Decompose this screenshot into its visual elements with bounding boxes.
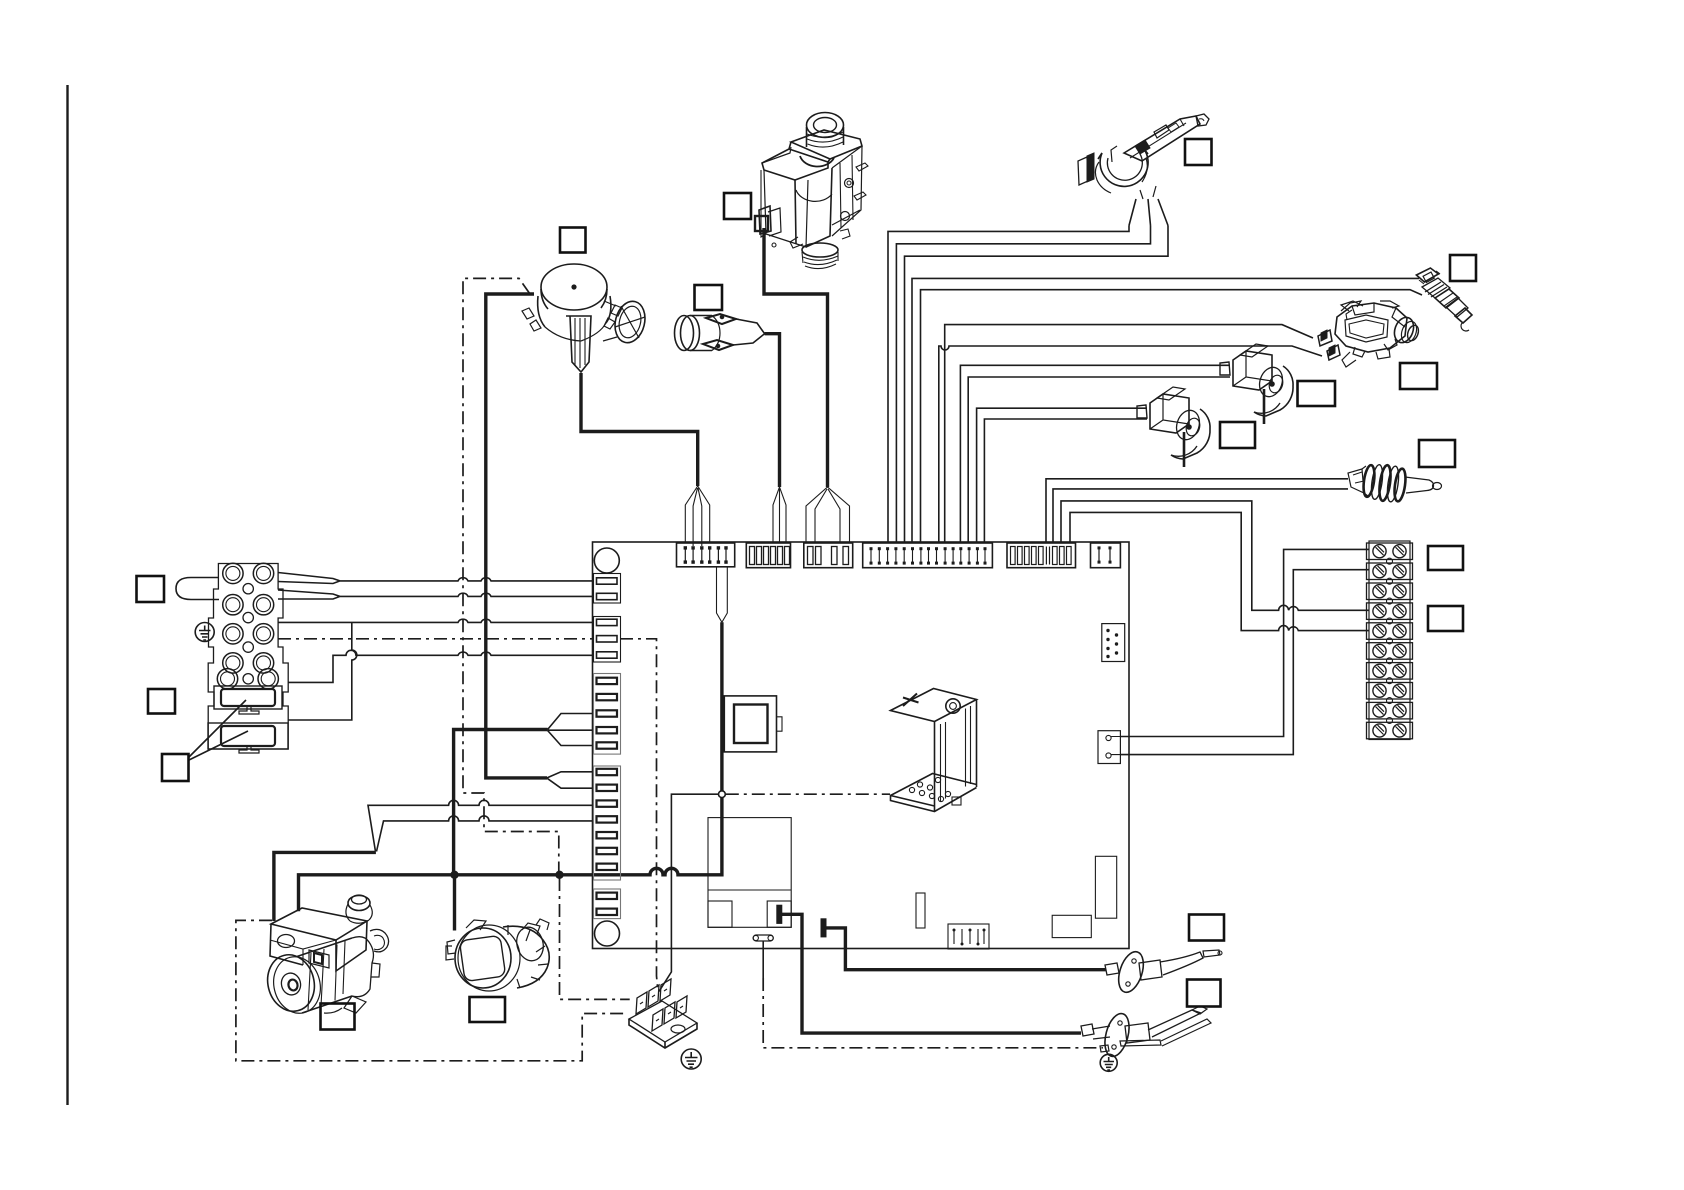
chassis dash-dot pump loop [236, 920, 627, 1060]
PCB left pad group B [594, 617, 621, 663]
pump [262, 895, 389, 1018]
T-stub to detection electrode thick [827, 928, 1106, 970]
PCB small rect bottom-center [916, 893, 925, 928]
wire pad D4 to pump cable (hops) [377, 816, 594, 852]
PCB corner hole bottom-left [595, 921, 620, 946]
PCB small rect right [1095, 856, 1116, 918]
wire CN4-2 to flue clamp [896, 226, 1150, 544]
wire node up to CN1 pins (bundle envelope) [720, 622, 723, 791]
wire node to bracket dash-dot [726, 793, 890, 795]
PCB left pad group A [594, 574, 621, 604]
wire CN4-11 to pipe clip A [984, 419, 1147, 543]
wire fan bundle to connector CN1 [581, 373, 698, 486]
wire block row3 to pad B1 (hops) [278, 619, 593, 622]
wire block row2 to pad A2 (taper, hops) [278, 590, 593, 599]
fuse holder 2 [208, 723, 288, 753]
label box flue clamp [1185, 139, 1212, 165]
wire pump-motor column to diverter motor [453, 875, 456, 931]
label box fuse holder [148, 689, 175, 714]
pipe clip A [1137, 387, 1210, 467]
PCB relay box [708, 818, 791, 928]
label box fan [560, 228, 586, 253]
wire CN4-4 to thermistor [912, 278, 1419, 543]
wire funnel above CN1 [685, 486, 709, 546]
PCB 7-hole connector right [1102, 624, 1125, 662]
connector CN1 [677, 543, 735, 567]
label box strip lower [1428, 606, 1463, 631]
wire fan power thick [486, 294, 534, 730]
connector CN5 [1007, 543, 1076, 568]
PCB corner hole top-left [594, 548, 619, 573]
chassis dash-dot from fan [463, 278, 559, 871]
wire funnel above CN2 [773, 487, 786, 543]
fan [522, 264, 649, 372]
wire CN4-6 to pressure switch (hops CN4-7) [939, 346, 1322, 543]
wire CN5-1 to probe [1046, 479, 1348, 543]
label box fuse pointer [162, 754, 189, 781]
wire CN4-5 to thermistor [921, 290, 1423, 543]
wire terminal block loop jumper [176, 578, 219, 600]
label box thermistor [1450, 255, 1476, 281]
fuse holder 1 [214, 686, 282, 714]
wire fan thick branch to pump-motor column [454, 730, 486, 874]
earth symbol below earth terminal [681, 1049, 701, 1069]
wire block row5 to pad B3 (hops) [288, 650, 593, 682]
PCB left pad group D [594, 766, 621, 880]
label box pipe clip A [1220, 422, 1255, 448]
wire strip row1 to PCB 2pin connector [1121, 549, 1369, 736]
label box gas valve [724, 193, 751, 219]
left terminal block [208, 563, 288, 749]
wire CN4-3 to flue clamp [905, 226, 1169, 544]
wire CN4-9 to pipe clip B [968, 377, 1230, 543]
detection electrode [1081, 1006, 1211, 1059]
terminal strip right [1367, 541, 1413, 740]
label box ignition electrode [1189, 915, 1224, 941]
wire block earth dash-dot to pad B2 [278, 638, 593, 640]
earth symbol at block [195, 623, 214, 642]
fuse dash-dot to detection electrode earth [763, 978, 1103, 1048]
flue clamp sensor [1078, 114, 1209, 199]
earth terminal block [629, 979, 697, 1048]
connector CN4 [863, 543, 993, 568]
connector CN3 [804, 543, 853, 568]
gas valve [755, 113, 868, 269]
PCB left pad group C [594, 674, 621, 755]
wire CN5-3 to terminal strip row4 (hops) [1061, 501, 1369, 610]
PCB fuse [753, 935, 773, 941]
wire CN4-8 to pipe clip B [960, 365, 1230, 543]
wire overheat stat to connector CN2 [765, 334, 780, 487]
pressure selector switch [1318, 301, 1420, 367]
PCB main board outline [593, 542, 1130, 949]
label box pump [321, 1004, 355, 1030]
label box terminal block [137, 576, 165, 602]
label box detection electrode [1187, 980, 1221, 1007]
label box pressure switch [1400, 363, 1437, 389]
PCB 2-pin connector right [1098, 731, 1121, 764]
temperature probe [1348, 464, 1442, 503]
wire pump cable thick [274, 852, 376, 921]
connector CN6 [1091, 543, 1121, 568]
wire funnel below flue clamp [1129, 199, 1168, 226]
wire pad D3 to pump cable (hops) [368, 800, 593, 851]
wire bundle stub to pads D1-D2 [486, 730, 547, 778]
earth symbol below detection electrode [1100, 1054, 1117, 1071]
PCB left pad group E [594, 889, 621, 919]
wire CN4-10 to pipe clip A [977, 408, 1147, 543]
wire funnel above CN3 [806, 487, 850, 543]
label box diverter motor [470, 997, 506, 1022]
pointer lines fuse label [189, 700, 248, 760]
wire CN4-1 to flue clamp [888, 226, 1129, 544]
pipe clip B [1220, 344, 1293, 424]
thermistor [1416, 268, 1472, 331]
PCB bottom pin connector [948, 924, 989, 949]
PCB transformer [724, 696, 782, 752]
label box overheat stat [695, 285, 723, 310]
label box pipe clip B [1298, 381, 1336, 406]
overheat thermostat [675, 314, 765, 351]
wire mains bus thick (hops at PCB edge) [299, 798, 722, 912]
node circle on thick wire [719, 791, 726, 798]
junction dot bus/chassis [555, 871, 563, 879]
wire block row1 to pad A1 (taper, hops) [278, 573, 593, 584]
PCB mounting bracket (3D) [891, 689, 977, 812]
wire gas valve to connector CN3 [764, 228, 828, 487]
page border line [66, 85, 68, 1105]
fuse wire below PCB [762, 941, 764, 978]
wire branch block lower section [288, 622, 357, 720]
wire CN4-7 to pressure switch [945, 325, 1313, 543]
diverter valve motor [446, 919, 549, 991]
label box strip upper [1428, 546, 1463, 570]
chassis dash-dot below bus to earth terminal [560, 878, 630, 999]
wire node to earth terminal [659, 794, 719, 991]
ignition electrode [1105, 949, 1222, 996]
wire strip row2 to PCB 2pin connector [1121, 570, 1369, 755]
wire bundle stub to pads C3-C5 [486, 728, 548, 731]
wire CN5-4 to terminal strip row5 (hops) [1070, 512, 1369, 630]
wire pad B2 dash-dot to earth terminal [620, 639, 658, 992]
wire CN5-2 to probe [1053, 489, 1348, 543]
junction dot bus/motor [450, 871, 458, 879]
connector CN2 [746, 543, 790, 568]
PCB small rect bottom-right [1052, 915, 1091, 937]
label box probe [1419, 440, 1455, 467]
T-stub to ignition electrode thick [781, 914, 1081, 1033]
